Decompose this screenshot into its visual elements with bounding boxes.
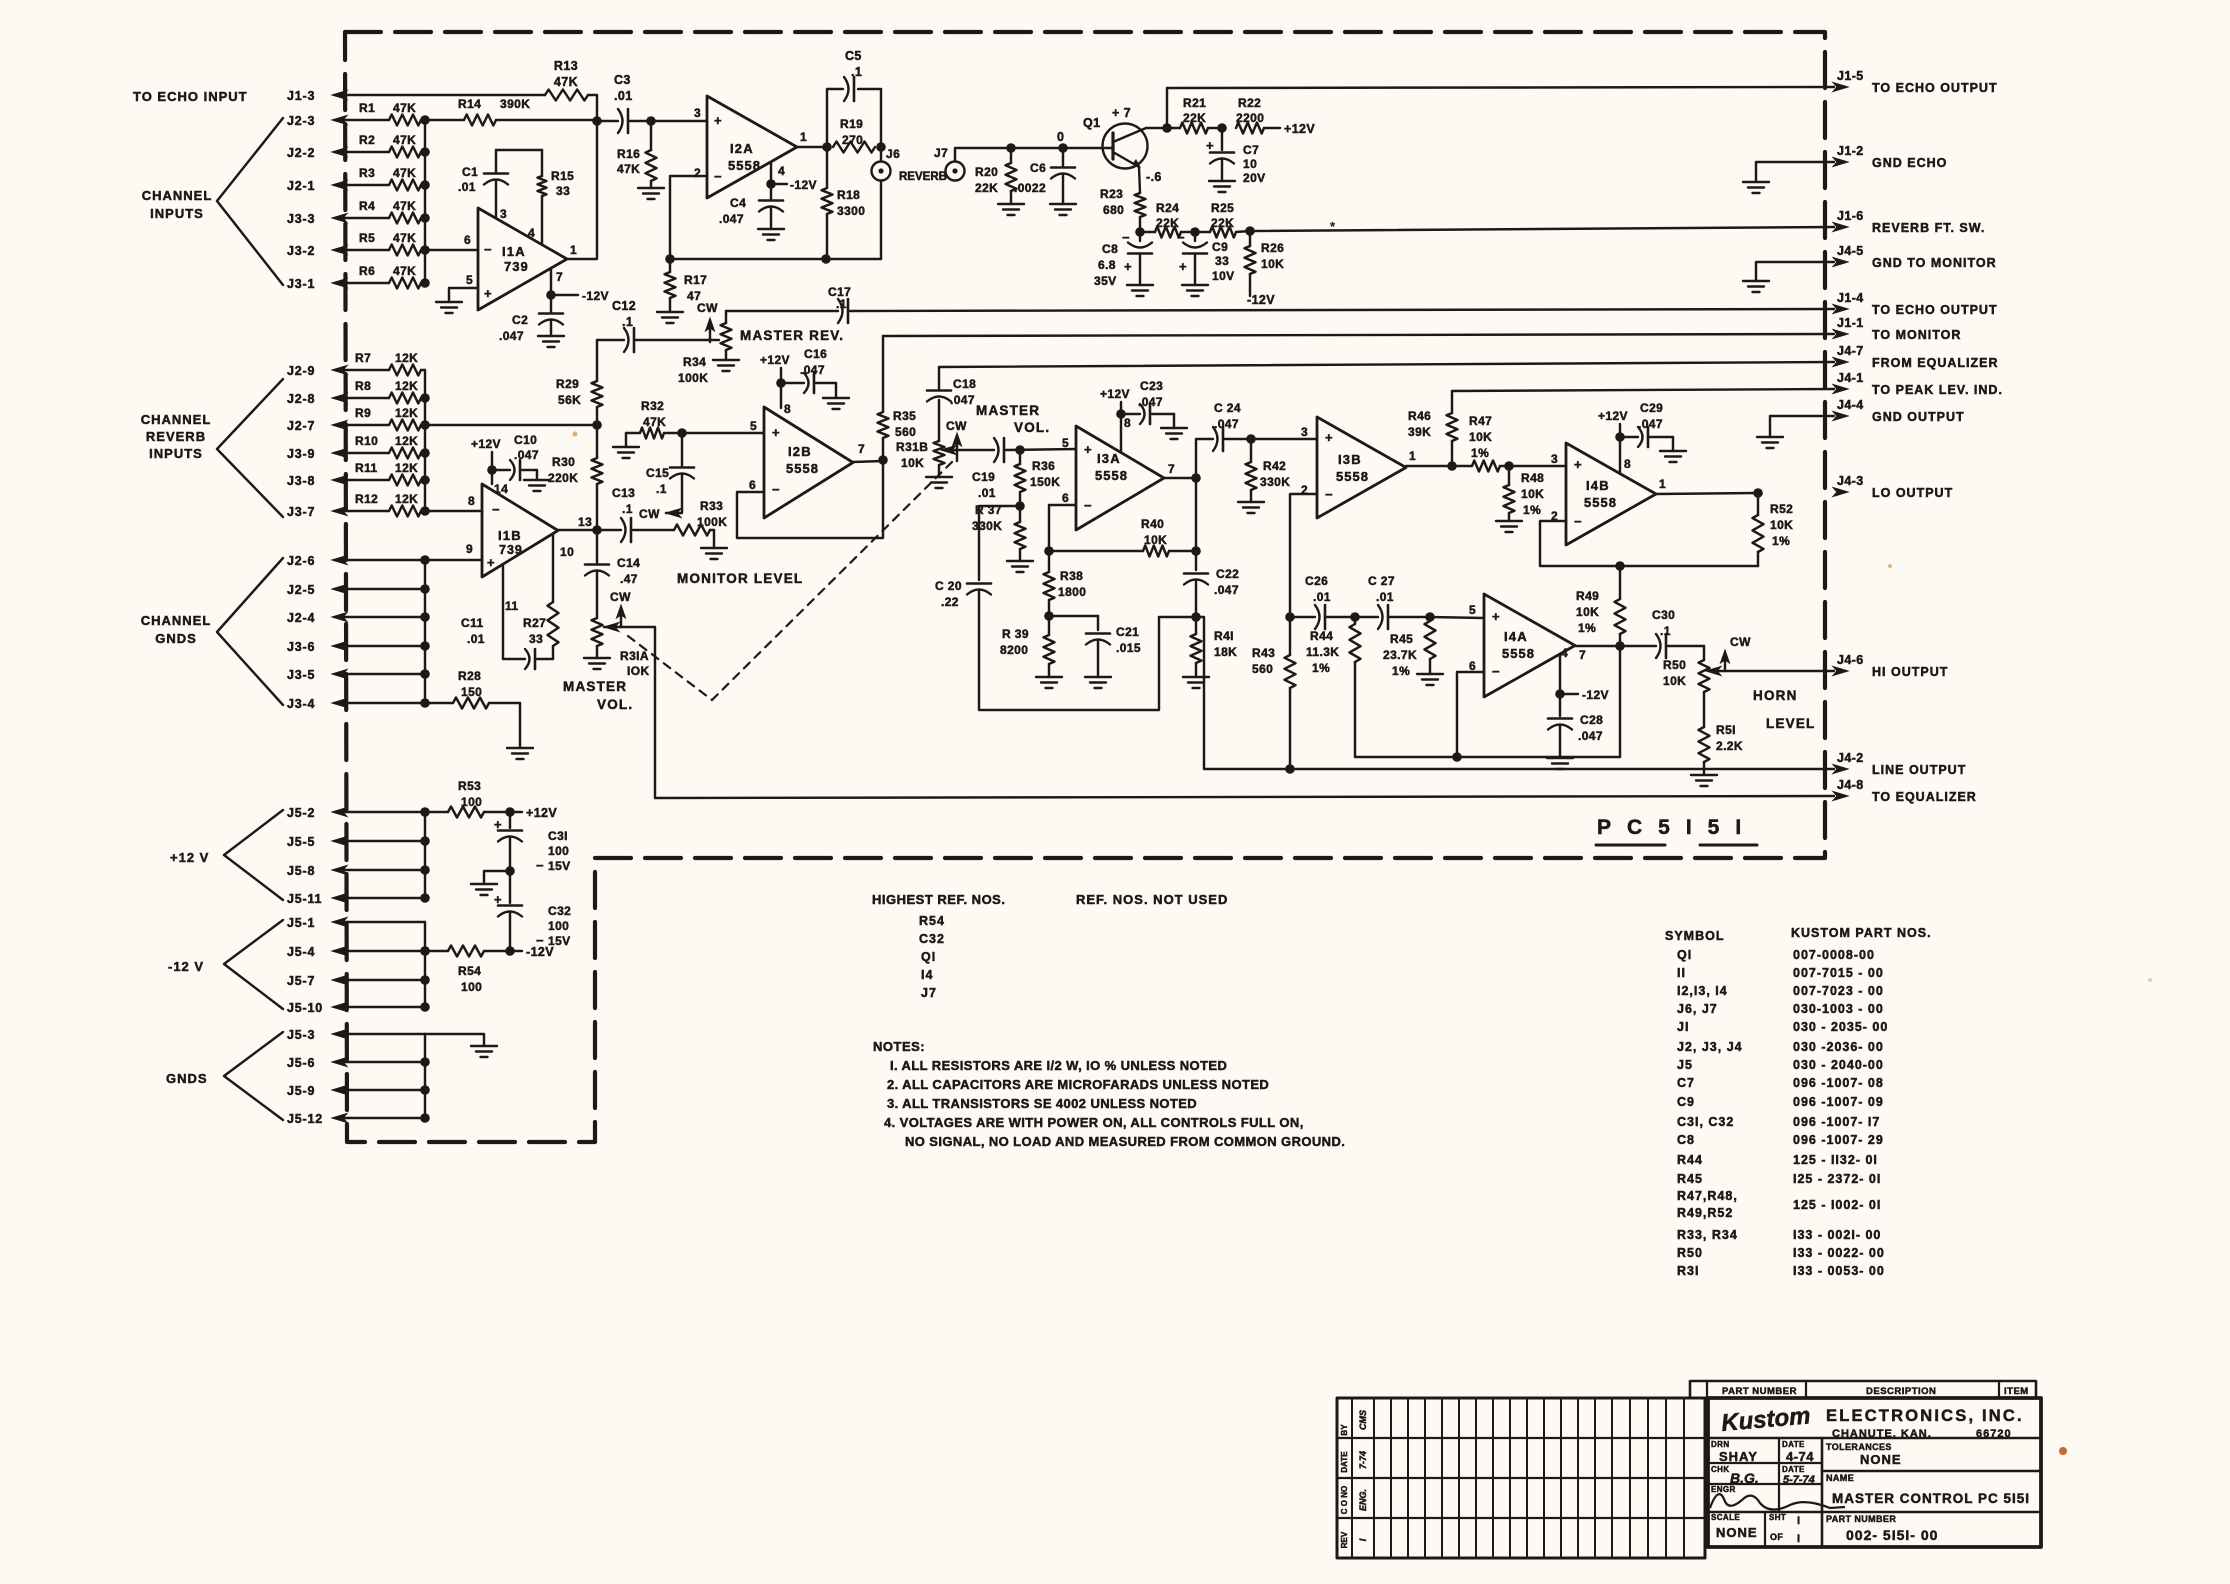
wire gnd output bbox=[1770, 416, 1834, 437]
wire J3-5 row bbox=[335, 673, 425, 675]
svg-text:LINE OUTPUT: LINE OUTPUT bbox=[1872, 763, 1966, 777]
svg-text:1800: 1800 bbox=[1058, 585, 1086, 599]
svg-text:C14: C14 bbox=[617, 556, 640, 570]
svg-text:+: + bbox=[772, 425, 780, 440]
svg-text:J5-5: J5-5 bbox=[287, 835, 315, 849]
capacitor C27 bbox=[1368, 574, 1395, 629]
label TO ECHO INPUT bbox=[133, 89, 248, 104]
svg-text:12K: 12K bbox=[395, 351, 418, 365]
svg-text:0: 0 bbox=[1057, 130, 1064, 144]
svg-text:22K: 22K bbox=[1211, 216, 1234, 230]
junction R24 R25 bbox=[1190, 227, 1200, 237]
junction -12V bus bbox=[420, 1002, 430, 1012]
junction reverb bus bbox=[420, 448, 430, 458]
svg-text:47K: 47K bbox=[393, 101, 416, 115]
capacitor C18 bbox=[927, 367, 976, 407]
svg-text:J6: J6 bbox=[886, 147, 900, 161]
svg-text:6: 6 bbox=[1062, 491, 1069, 505]
ground R42 bbox=[1238, 502, 1264, 513]
svg-text:R42: R42 bbox=[1263, 459, 1286, 473]
svg-text:10K: 10K bbox=[1469, 430, 1492, 444]
svg-text:R49,R52: R49,R52 bbox=[1677, 1206, 1733, 1220]
junction +12V bus bbox=[420, 865, 430, 875]
svg-text:CW: CW bbox=[697, 301, 718, 315]
junction R43 bottom bbox=[1285, 764, 1295, 774]
svg-text:KUSTOM PART NOS.: KUSTOM PART NOS. bbox=[1791, 926, 1932, 940]
svg-text:14: 14 bbox=[494, 482, 508, 496]
svg-text:.047: .047 bbox=[1214, 417, 1239, 431]
svg-text:5558: 5558 bbox=[1502, 646, 1535, 661]
resistor R10 bbox=[355, 434, 421, 459]
svg-text:J4-5: J4-5 bbox=[1837, 244, 1864, 258]
svg-text:R 39: R 39 bbox=[1002, 627, 1029, 641]
capacitor C10 bbox=[492, 433, 539, 480]
svg-text:.047: .047 bbox=[1578, 729, 1603, 743]
op-amp I3A bbox=[1062, 416, 1175, 530]
junction R54 bus bbox=[420, 946, 430, 956]
wire J3-2 to pin6 bbox=[425, 249, 478, 251]
wire J2-7 row bbox=[335, 424, 389, 426]
svg-text:BY: BY bbox=[1340, 1424, 1349, 1436]
svg-text:007-7015 - 00: 007-7015 - 00 bbox=[1793, 966, 1884, 980]
node J1-2 exit bbox=[1833, 144, 1947, 170]
svg-text:GND ECHO: GND ECHO bbox=[1872, 156, 1947, 170]
wire C4 ground bbox=[770, 208, 772, 229]
resistor R1 bbox=[359, 101, 421, 126]
svg-text:2200: 2200 bbox=[1236, 111, 1264, 125]
ground gnd output bbox=[1757, 437, 1783, 448]
capacitor C13 bbox=[612, 486, 635, 542]
junction C22 bottom bbox=[1191, 612, 1201, 622]
wire output to C30 bbox=[1620, 645, 1656, 647]
junction I2A out bbox=[822, 142, 832, 152]
junction R17 top bbox=[665, 254, 675, 264]
svg-text:+: + bbox=[484, 286, 492, 301]
svg-text:10K: 10K bbox=[1521, 487, 1544, 501]
svg-text:INPUTS: INPUTS bbox=[149, 446, 203, 461]
svg-text:J3-9: J3-9 bbox=[287, 447, 315, 461]
label ELECTRONICS INC bbox=[1826, 1407, 2024, 1425]
svg-text:.047: .047 bbox=[1638, 417, 1663, 431]
svg-text:C7: C7 bbox=[1243, 143, 1259, 157]
svg-text:R3: R3 bbox=[359, 166, 375, 180]
node J1-1 exit bbox=[1833, 316, 1961, 342]
svg-text:J3-1: J3-1 bbox=[287, 277, 315, 291]
node J2-2 bbox=[287, 146, 347, 160]
wire J2-3 row bbox=[335, 119, 389, 121]
svg-text:R47: R47 bbox=[1469, 414, 1492, 428]
resistor R7 bbox=[355, 351, 421, 376]
svg-text:.01: .01 bbox=[614, 89, 633, 103]
svg-text:I3A: I3A bbox=[1097, 451, 1121, 466]
ground R34 bbox=[713, 360, 739, 371]
svg-text:12K: 12K bbox=[395, 492, 418, 506]
PCB dashed border outline bbox=[345, 32, 1825, 1142]
junction R49 top bbox=[1615, 561, 1625, 571]
svg-text:R31B: R31B bbox=[896, 440, 928, 454]
svg-text:100K: 100K bbox=[678, 371, 708, 385]
svg-text:R18: R18 bbox=[837, 188, 860, 202]
junction input bus bbox=[420, 245, 430, 255]
capacitor C30 bbox=[1652, 608, 1675, 658]
ground C28 bbox=[1547, 758, 1573, 769]
op-amp I1B bbox=[466, 482, 592, 613]
junction R42 top bbox=[1246, 434, 1256, 444]
wire R5 to bus bbox=[421, 249, 425, 251]
svg-text:GND OUTPUT: GND OUTPUT bbox=[1872, 410, 1965, 424]
svg-text:739: 739 bbox=[499, 543, 523, 557]
wire R12 to bus bbox=[421, 510, 425, 512]
svg-text:7: 7 bbox=[1579, 648, 1586, 662]
svg-text:I33 - 002I- 00: I33 - 002I- 00 bbox=[1793, 1228, 1881, 1242]
svg-text:R13: R13 bbox=[554, 59, 578, 73]
svg-text:R11: R11 bbox=[355, 461, 378, 475]
svg-text:.047: .047 bbox=[800, 363, 825, 377]
svg-text:3: 3 bbox=[1301, 425, 1308, 439]
svg-text:GND TO MONITOR: GND TO MONITOR bbox=[1872, 256, 1997, 270]
svg-text:R45: R45 bbox=[1390, 632, 1413, 646]
wire R1 to bus bbox=[421, 119, 425, 121]
wire J3-6 row bbox=[335, 645, 425, 647]
junction pin4 bbox=[766, 179, 776, 189]
svg-text:47K: 47K bbox=[393, 264, 416, 278]
svg-text:R19: R19 bbox=[840, 117, 863, 131]
label highest refs list bbox=[919, 914, 945, 1000]
wire line output feed bbox=[1196, 617, 1834, 769]
junction gnds bus bbox=[420, 669, 430, 679]
svg-text:C30: C30 bbox=[1652, 608, 1675, 622]
svg-text:TO EQUALIZER: TO EQUALIZER bbox=[1872, 790, 1977, 804]
ground C9 bbox=[1182, 285, 1208, 296]
svg-text:HI OUTPUT: HI OUTPUT bbox=[1872, 665, 1948, 679]
wire C26 leads bbox=[1290, 616, 1352, 618]
svg-text:47K: 47K bbox=[393, 166, 416, 180]
svg-text:47K: 47K bbox=[617, 162, 640, 176]
junction reverb bus bbox=[420, 475, 430, 485]
label MASTER CONTROL PC5151 bbox=[1832, 1491, 2030, 1506]
junction R53 right bbox=[505, 807, 515, 817]
svg-text:10K: 10K bbox=[901, 456, 924, 470]
ground C21 bbox=[1085, 677, 1111, 688]
svg-text:C32: C32 bbox=[548, 904, 571, 918]
wire I4A output bbox=[1575, 645, 1620, 647]
wire +12V bus bbox=[424, 812, 426, 898]
svg-text:DRN: DRN bbox=[1711, 1440, 1730, 1449]
svg-text:+: + bbox=[714, 113, 722, 128]
node J2-6 bbox=[287, 554, 347, 568]
svg-text:CW: CW bbox=[610, 590, 631, 604]
resistor R28 bbox=[425, 669, 520, 748]
node J5-7 bbox=[287, 974, 347, 988]
svg-text:VOL.: VOL. bbox=[1014, 420, 1050, 435]
svg-text:J2-2: J2-2 bbox=[287, 146, 315, 160]
ground C8 bbox=[1127, 285, 1153, 296]
svg-text:REV: REV bbox=[1340, 1531, 1349, 1548]
wire gnd bus stub bbox=[425, 1034, 484, 1046]
svg-text:3300: 3300 bbox=[837, 204, 865, 218]
node J3-8 bbox=[287, 474, 347, 488]
chevron channel reverb bbox=[217, 379, 283, 517]
wire J2-1 row bbox=[335, 184, 389, 186]
svg-text:R43: R43 bbox=[1252, 646, 1275, 660]
svg-text:+12V: +12V bbox=[526, 806, 557, 820]
resistor R25 bbox=[1210, 201, 1236, 238]
svg-text:125 - II32- 0I: 125 - II32- 0I bbox=[1793, 1153, 1878, 1167]
svg-text:8: 8 bbox=[1624, 457, 1631, 471]
wire J5-11 row bbox=[335, 897, 425, 899]
node J3-5 bbox=[287, 668, 347, 682]
svg-text:100: 100 bbox=[548, 844, 569, 858]
wire R4 to bus bbox=[421, 217, 425, 219]
wire horn level out bbox=[1710, 670, 1834, 672]
wire J5-6 row bbox=[335, 1061, 425, 1063]
wire C2 to ground bbox=[550, 321, 552, 336]
junction input bus bbox=[420, 180, 430, 190]
paper specks bbox=[573, 432, 2153, 1456]
junction input bus bbox=[420, 278, 430, 288]
junction gnds bus bbox=[420, 698, 430, 708]
node J1-4 exit bbox=[1833, 291, 1998, 317]
svg-text:LEVEL: LEVEL bbox=[1766, 716, 1816, 731]
svg-text:R24: R24 bbox=[1156, 201, 1179, 215]
node J1-3 bbox=[287, 89, 347, 103]
resistor R30 bbox=[548, 425, 603, 530]
junction reverb bus bbox=[420, 506, 430, 516]
resistor R5 bbox=[359, 231, 421, 256]
wire R11 to bus bbox=[421, 479, 425, 481]
svg-text:CW: CW bbox=[639, 507, 660, 521]
wire I2A output bbox=[797, 146, 827, 148]
capacitor C20 bbox=[935, 579, 991, 609]
svg-text:−: − bbox=[714, 169, 722, 184]
wire C3 right bbox=[630, 120, 707, 122]
svg-text:J4-8: J4-8 bbox=[1837, 778, 1864, 792]
svg-text:MASTER: MASTER bbox=[976, 403, 1040, 418]
wire R31A wiper to equalizer bbox=[610, 627, 655, 798]
svg-text:R5I: R5I bbox=[1716, 723, 1736, 737]
svg-text:1: 1 bbox=[800, 130, 807, 144]
svg-text:C10: C10 bbox=[514, 433, 537, 447]
svg-text:C4: C4 bbox=[730, 196, 746, 210]
ground R33 bbox=[701, 548, 727, 559]
svg-text:R40: R40 bbox=[1141, 517, 1164, 531]
transistor Q1 bbox=[1083, 106, 1148, 169]
svg-text:CHANNEL: CHANNEL bbox=[141, 613, 212, 628]
svg-text:12K: 12K bbox=[395, 434, 418, 448]
svg-text:.01: .01 bbox=[1376, 590, 1394, 604]
chevron -12V bbox=[224, 920, 283, 1009]
svg-text:I1B: I1B bbox=[498, 528, 522, 543]
ground R28 bbox=[507, 748, 533, 759]
svg-text:I1A: I1A bbox=[502, 244, 526, 259]
wire J7 to Q1 base bbox=[955, 148, 1113, 161]
svg-text:33: 33 bbox=[556, 184, 570, 198]
wire pin10 stub bbox=[552, 535, 554, 602]
resistor R47 bbox=[1452, 414, 1509, 472]
wire R13 to node bbox=[588, 95, 597, 121]
svg-text:C16: C16 bbox=[804, 347, 827, 361]
wire Q1 collector bbox=[1146, 127, 1167, 129]
junction input bus bbox=[420, 147, 430, 157]
wire J5-9 row bbox=[335, 1089, 425, 1091]
speck near reverb line bbox=[1330, 219, 1335, 234]
svg-text:6: 6 bbox=[749, 478, 756, 492]
node J4-1 exit bbox=[1833, 371, 2003, 397]
svg-text:SYMBOL: SYMBOL bbox=[1665, 929, 1724, 943]
resistor R2 bbox=[359, 133, 421, 158]
capacitor C16 bbox=[781, 347, 836, 398]
svg-text:C11: C11 bbox=[461, 616, 484, 630]
svg-text:+12V: +12V bbox=[471, 437, 501, 451]
svg-text:10K: 10K bbox=[1261, 257, 1284, 271]
label HIGHEST REF NOS bbox=[872, 892, 1005, 907]
svg-text:NONE: NONE bbox=[1860, 1452, 1902, 1467]
chevron GNDS bbox=[224, 1032, 283, 1120]
svg-text:REVERB: REVERB bbox=[146, 429, 206, 444]
svg-text:R48: R48 bbox=[1521, 471, 1544, 485]
svg-text:J5-6: J5-6 bbox=[287, 1056, 315, 1070]
label REF NOS NOT USED bbox=[1076, 892, 1228, 907]
wire reverb bus bbox=[424, 370, 426, 511]
junction GND bus bbox=[420, 1085, 430, 1095]
resistor R17 bbox=[665, 259, 708, 312]
resistor R15 bbox=[538, 150, 575, 245]
svg-text:8200: 8200 bbox=[1000, 643, 1028, 657]
svg-text:3: 3 bbox=[1551, 452, 1558, 466]
svg-text:C3I, C32: C3I, C32 bbox=[1677, 1115, 1734, 1129]
svg-text:R3IA: R3IA bbox=[620, 649, 649, 663]
svg-text:C15: C15 bbox=[646, 466, 669, 480]
svg-text:DATE: DATE bbox=[1782, 1465, 1805, 1474]
jack J6 bbox=[872, 147, 901, 181]
svg-text:CHANNEL: CHANNEL bbox=[142, 188, 213, 203]
svg-text:C8: C8 bbox=[1677, 1133, 1695, 1147]
node J2-3 bbox=[287, 114, 347, 128]
wire pin4 stub bbox=[771, 163, 785, 199]
junction C31 bottom bbox=[505, 866, 515, 876]
svg-text:ENGR: ENGR bbox=[1711, 1485, 1736, 1494]
svg-text:J2-1: J2-1 bbox=[287, 179, 315, 193]
svg-text:VOL.: VOL. bbox=[597, 697, 633, 712]
ground C16 bbox=[823, 398, 849, 409]
junction R36 bottom bbox=[1015, 501, 1025, 511]
svg-text:C12: C12 bbox=[612, 299, 636, 313]
capacitor C22 bbox=[1184, 551, 1239, 617]
node J3-6 bbox=[287, 640, 347, 654]
wire input bus bbox=[424, 120, 426, 283]
svg-text:4-74: 4-74 bbox=[1786, 1449, 1814, 1464]
svg-text:5558: 5558 bbox=[1336, 469, 1369, 484]
wire +12V stub I1B bbox=[471, 437, 501, 470]
svg-text:R46: R46 bbox=[1408, 409, 1431, 423]
ground gnd to monitor bbox=[1743, 281, 1769, 292]
wire pin5 I2B bbox=[682, 432, 764, 434]
svg-text:R38: R38 bbox=[1060, 569, 1083, 583]
svg-text:R2: R2 bbox=[359, 133, 375, 147]
svg-text:7: 7 bbox=[556, 270, 563, 284]
svg-text:560: 560 bbox=[1252, 662, 1273, 676]
svg-text:J3-6: J3-6 bbox=[287, 640, 315, 654]
capacitor C17 bbox=[828, 285, 851, 323]
label -12V R26 bbox=[1247, 293, 1275, 307]
svg-text:.01: .01 bbox=[1313, 590, 1331, 604]
capacitor C28 bbox=[1548, 694, 1603, 756]
junction C6 top bbox=[1058, 143, 1068, 153]
title block frame bbox=[1708, 1398, 2041, 1547]
node J2-8 bbox=[287, 392, 347, 406]
wire J3-2 row bbox=[335, 249, 389, 251]
node J4-3 exit bbox=[1833, 474, 1953, 500]
resistor R9 bbox=[355, 406, 421, 431]
svg-text:4: 4 bbox=[1561, 646, 1568, 660]
wire to monitor line bbox=[883, 334, 1834, 336]
svg-text:5: 5 bbox=[466, 273, 473, 287]
wire R10 to bus bbox=[421, 452, 425, 454]
node J5-4 bbox=[287, 945, 347, 959]
svg-text:HORN: HORN bbox=[1753, 688, 1798, 703]
svg-text:LO OUTPUT: LO OUTPUT bbox=[1872, 486, 1953, 500]
svg-text:DATE: DATE bbox=[1340, 1451, 1349, 1473]
svg-text:C7: C7 bbox=[1677, 1076, 1695, 1090]
svg-text:*: * bbox=[1330, 219, 1335, 234]
svg-text:150: 150 bbox=[461, 685, 482, 699]
svg-text:35V: 35V bbox=[1094, 274, 1117, 288]
svg-text:+ 7: + 7 bbox=[1112, 106, 1131, 120]
svg-text:I: I bbox=[1797, 1515, 1800, 1527]
wire J2-9 row bbox=[335, 369, 389, 371]
capacitor C2 bbox=[499, 313, 563, 343]
svg-text:R5: R5 bbox=[359, 231, 375, 245]
svg-text:J1-1: J1-1 bbox=[1837, 316, 1864, 330]
svg-text:.047: .047 bbox=[499, 329, 524, 343]
svg-text:−: − bbox=[1084, 498, 1092, 513]
svg-text:C2: C2 bbox=[512, 313, 528, 327]
label MASTER VOL B bbox=[976, 403, 1050, 435]
node J4-8 exit bbox=[1833, 778, 1977, 804]
svg-text:.015: .015 bbox=[1116, 641, 1141, 655]
junction gnds bus bbox=[420, 641, 430, 651]
junction C26 left bbox=[1285, 612, 1295, 622]
wire J3-3 row bbox=[335, 217, 389, 219]
wire to echo output J1-5 bbox=[1167, 87, 1834, 88]
svg-text:II: II bbox=[1677, 966, 1686, 980]
svg-text:270: 270 bbox=[842, 133, 863, 147]
svg-text:DESCRIPTION: DESCRIPTION bbox=[1866, 1386, 1936, 1397]
svg-text:TO MONITOR: TO MONITOR bbox=[1872, 328, 1961, 342]
wire gnds bus bbox=[424, 560, 426, 703]
wire J3-7 to pin8 bbox=[425, 510, 482, 512]
wire to peak lev ind bbox=[1452, 389, 1834, 391]
resistor R14 bbox=[458, 97, 530, 126]
wire C24 to pin3 bbox=[1225, 438, 1317, 440]
wire gnd echo bbox=[1756, 162, 1834, 181]
svg-text:TO ECHO OUTPUT: TO ECHO OUTPUT bbox=[1872, 81, 1998, 95]
wire J5-4 row bbox=[335, 950, 425, 952]
node J4-2 exit bbox=[1833, 751, 1966, 777]
junction I2B out bbox=[878, 455, 888, 465]
svg-text:030 - 2040-00: 030 - 2040-00 bbox=[1793, 1058, 1884, 1072]
svg-text:R4I: R4I bbox=[1214, 629, 1234, 643]
wire +12V stub I2B bbox=[760, 353, 790, 383]
svg-text:−: − bbox=[1574, 514, 1582, 529]
wire pin2 I3B bbox=[1290, 494, 1317, 617]
svg-text:10V: 10V bbox=[1212, 269, 1235, 283]
svg-text:GNDS: GNDS bbox=[155, 631, 197, 646]
svg-text:OF: OF bbox=[1770, 1532, 1783, 1542]
junction input bus top bbox=[420, 115, 430, 125]
resistor R3 bbox=[359, 166, 421, 191]
label HORN LEVEL bbox=[1753, 688, 1816, 731]
